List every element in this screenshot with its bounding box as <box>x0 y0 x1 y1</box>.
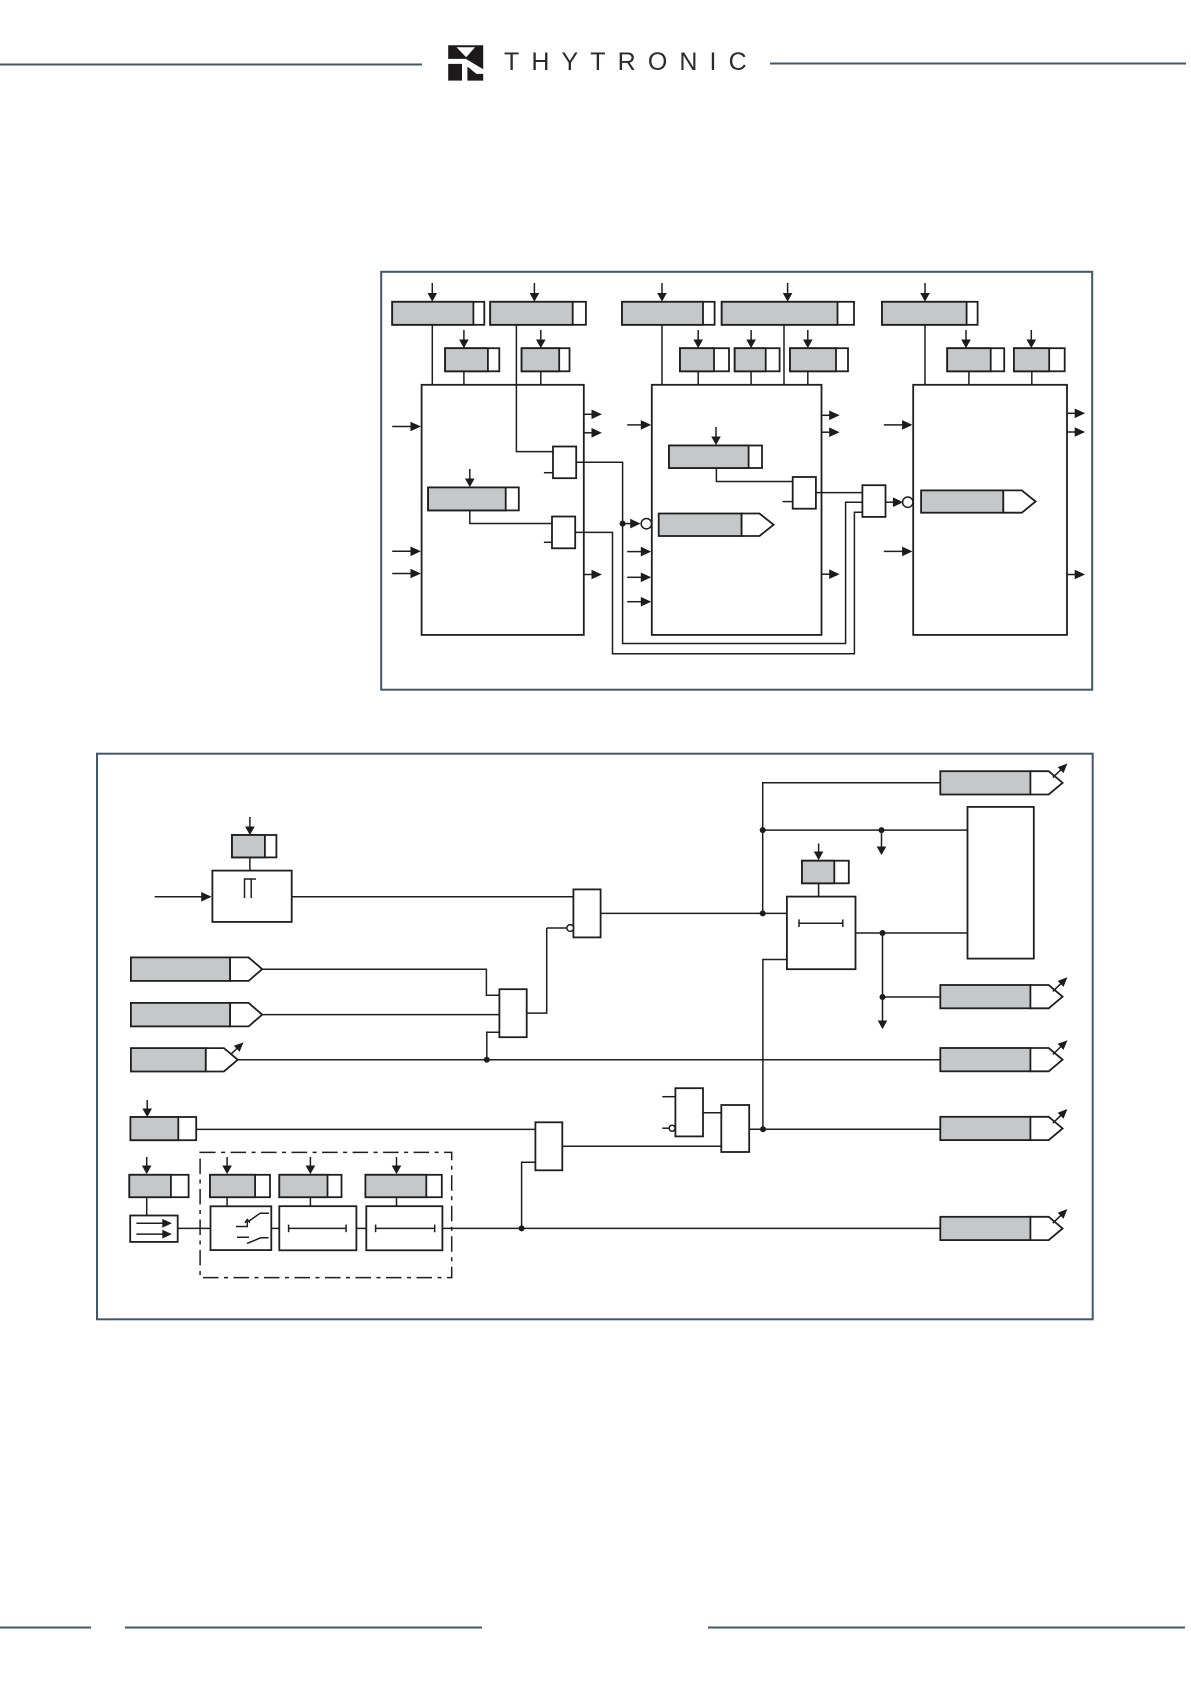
test block 1 (contact) <box>211 1206 272 1250</box>
start signal bar of block 2 <box>659 514 774 537</box>
wire S3 to block 1 <box>463 371 465 385</box>
setting box of timer block <box>802 861 849 884</box>
input arrow 3 into block 2 <box>627 573 651 583</box>
wire S10 to block 3 <box>924 325 926 385</box>
wire gate C to gate D <box>816 492 863 494</box>
setting arrow into T3 <box>392 1157 402 1174</box>
setting arrow into S4 <box>536 330 546 348</box>
wire B3 to signal output O3 <box>237 1059 940 1061</box>
wire timer box to timer block <box>818 883 820 896</box>
input arrow 1 into block 1 <box>392 422 421 432</box>
wire L2 to source selector <box>146 1197 148 1215</box>
gate A (block 1 upper) <box>553 447 576 479</box>
branch arrow at B3 <box>231 1042 244 1054</box>
input arrow 2 into block 2 <box>627 547 651 557</box>
signal bar B1 <box>131 957 262 981</box>
wire test block 2 to test block 3 <box>356 1227 366 1229</box>
bottom diagram outer frame <box>97 754 1093 1320</box>
wire S6 to block 2 <box>783 325 785 385</box>
setting bar S5 (block 2) <box>622 302 715 325</box>
THYTRONIC logo mark <box>448 45 483 80</box>
feedback wire gate B to gate D via lowest bus <box>575 512 862 654</box>
wire gate I to gate H <box>562 1145 721 1147</box>
setting box of input element <box>232 835 276 857</box>
setting arrow into S7 <box>693 330 703 348</box>
setting bar S6 (block 2) <box>722 302 854 325</box>
gate D (combining gate) <box>862 485 885 517</box>
branch arrow at O2 <box>1053 977 1068 991</box>
junction dot at O2 branch <box>880 994 886 1000</box>
setting bar T1 <box>210 1175 270 1197</box>
signal bar B3 with branch arrow <box>131 1048 238 1071</box>
continuation arrow down from function block wire <box>877 830 887 855</box>
wire B1 to gate F <box>262 969 499 995</box>
setting bar S10 (block 3) <box>882 302 978 325</box>
footer rule 1 <box>0 1627 91 1629</box>
signal output O5 <box>940 1217 1062 1240</box>
inverted input arrow into block 3 <box>886 497 914 507</box>
continuation arrow down from O2 branch <box>878 997 888 1029</box>
wire S2 down into block 1 to gate A <box>516 325 553 452</box>
junction dot on test bus <box>519 1225 525 1231</box>
stub input gate A <box>544 472 553 474</box>
input arrow 3 into block 1 <box>392 569 421 579</box>
setting box S9 (block 2) <box>790 348 848 371</box>
timer symbol inside test block 2 <box>289 1225 347 1233</box>
second input into gate I from test bus <box>522 1162 536 1228</box>
block 3 (output logic element) <box>913 385 1067 635</box>
junction dot on timer output <box>880 930 886 936</box>
input element (edge detector) <box>212 871 291 922</box>
wire T1 to test block 1 <box>226 1197 228 1206</box>
setting arrow into L2 <box>142 1157 152 1174</box>
timer block <box>787 897 856 970</box>
setting bar T2 <box>279 1175 341 1197</box>
header rule right <box>770 63 1186 65</box>
function block <box>968 807 1034 959</box>
signal output O2 <box>940 985 1062 1008</box>
setting arrow into S8 <box>746 330 756 348</box>
output arrow 3 of block 1 <box>584 570 602 580</box>
header rule left <box>0 64 422 66</box>
setting arrow into L1 <box>142 1100 152 1117</box>
output arrow 1 of block 3 <box>1067 409 1085 419</box>
wire L1 to gate I <box>196 1128 535 1130</box>
setting arrow into S10 <box>920 283 930 302</box>
output arrow 3 of block 2 <box>822 569 840 579</box>
inverted input arrow into block 2 <box>623 519 652 529</box>
test section dash-dot box <box>200 1152 452 1277</box>
input arrow 2 into block 3 <box>884 547 913 557</box>
junction dot on B3 wire <box>484 1057 490 1063</box>
wire input element to gate E <box>292 896 574 898</box>
branch arrow at O5 <box>1053 1209 1068 1223</box>
signal output O1 (trip) <box>940 771 1062 794</box>
stub input gate C <box>783 501 793 503</box>
output arrow 1 of block 1 <box>584 410 602 420</box>
wire test block 1 to test block 2 <box>271 1227 279 1229</box>
setting arrow into S5 <box>657 283 667 302</box>
setting box S11 (block 3) <box>947 348 1004 371</box>
svg-text:THYTRONIC: THYTRONIC <box>504 48 759 76</box>
setting arrow into timer box <box>814 844 824 861</box>
setting arrow into S3 <box>459 330 469 348</box>
branch arrow at O3 <box>1053 1040 1068 1054</box>
wire T3 to test block 3 <box>396 1197 398 1206</box>
block 1 (first threshold element) <box>422 385 584 635</box>
setting box S7 (block 2) <box>680 348 729 371</box>
branch arrow at O1 <box>1053 764 1068 778</box>
gate B (block 1 lower) <box>552 517 575 549</box>
timer symbol inside block <box>799 919 843 927</box>
junction dot on gate H output <box>760 1126 766 1132</box>
inner setting bar of block 1 <box>428 487 519 510</box>
contact symbol inside test block 1 <box>236 1213 269 1243</box>
output arrow 2 of block 3 <box>1067 427 1085 437</box>
wire setting box to input element <box>249 857 251 870</box>
wire junction up to gate F <box>487 1032 500 1060</box>
junction dot on function block wire <box>879 827 885 833</box>
wire S7 to block 2 <box>697 371 699 385</box>
output arrow 2 of block 1 <box>584 428 602 438</box>
setting arrow into S6 <box>783 283 793 302</box>
selector arrow 2 <box>136 1230 172 1239</box>
wire gate E output to junction <box>601 912 787 914</box>
test block 2 (timer) <box>279 1206 356 1250</box>
wire gate F to gate E inverted input <box>527 928 547 1013</box>
gate F (enable gate) <box>499 989 526 1037</box>
setting arrow into S11 <box>961 330 971 348</box>
wire gate G to gate H <box>703 1112 721 1114</box>
input arrow 1 into block 2 <box>627 420 651 430</box>
wire gate H to signal output O4 <box>749 1128 940 1130</box>
output arrow 3 of block 3 <box>1067 570 1085 580</box>
gate C (block 2) <box>793 477 816 509</box>
wire S12 to block 3 <box>1031 371 1033 385</box>
input arrow 4 into block 2 <box>627 597 651 607</box>
gate E (blocking gate) <box>573 889 600 937</box>
wire inner bar to gate C <box>716 468 792 482</box>
branch arrow at O4 <box>1053 1109 1068 1123</box>
wire inner bar to gate B <box>470 510 552 523</box>
setting arrow into S9 <box>803 330 813 348</box>
wire timer output to function block <box>856 932 968 934</box>
wire S5 to block 2 <box>661 325 663 385</box>
edge symbol inside input element <box>245 879 257 898</box>
source selector block <box>130 1216 178 1242</box>
gate I (supervision gate) <box>535 1122 562 1170</box>
stub input gate G <box>662 1096 675 1098</box>
input arrow 1 into block 3 <box>884 420 913 430</box>
setting arrow into T2 <box>306 1157 316 1174</box>
wire S11 to block 3 <box>968 371 970 385</box>
setting bar S1 (block 1) <box>392 302 484 325</box>
footer rule 2 <box>125 1627 482 1629</box>
top diagram outer frame <box>381 272 1092 690</box>
footer rule 3 <box>708 1627 1185 1629</box>
wire S4 to block 1 <box>540 371 542 385</box>
output arrow 2 of block 2 <box>822 427 840 437</box>
selector arrow 1 <box>136 1219 172 1228</box>
setting arrow into inner bar of block 2 <box>711 427 721 445</box>
wire T2 to test block 2 <box>309 1197 311 1206</box>
block 2 (second threshold element) <box>652 385 822 635</box>
timer symbol inside test block 3 <box>376 1225 435 1233</box>
wire junction down to signal output O2 <box>883 933 941 997</box>
setting bar T3 <box>365 1175 441 1197</box>
setting arrow into S2 <box>530 283 540 302</box>
vertical bus to trip output <box>763 783 941 914</box>
wire junction to function block <box>763 829 968 831</box>
wire S8 to block 2 <box>750 371 752 385</box>
setting box L1 <box>130 1117 196 1140</box>
gate G (inverter) <box>675 1088 703 1136</box>
signal output O4 <box>940 1117 1062 1140</box>
stub input gate B <box>544 541 552 543</box>
setting bar S2 (block 1) <box>490 302 586 325</box>
wire B2 to gate F <box>262 1014 499 1016</box>
wire S1 to block 1 <box>431 325 433 385</box>
setting box L2 <box>129 1175 188 1197</box>
wire S9 to block 2 <box>807 371 809 385</box>
signal output O3 <box>940 1048 1062 1071</box>
second input into timer block <box>763 960 787 1130</box>
setting arrow into S1 <box>428 283 438 302</box>
inverted input of gate E <box>547 925 574 932</box>
inner setting bar of block 2 <box>669 446 762 469</box>
inverted stub input gate G <box>662 1125 675 1131</box>
gate H (output gate) <box>721 1105 749 1152</box>
output arrow 1 of block 2 <box>822 411 840 421</box>
setting box S3 (block 1) <box>445 348 499 371</box>
wire selector to test block 1 <box>178 1227 211 1229</box>
junction dot to function block <box>760 827 766 833</box>
setting arrow into T1 <box>222 1157 232 1174</box>
setting box S8 (block 2) <box>735 348 780 371</box>
setting arrow into input element box <box>245 817 255 835</box>
setting box S12 (block 3) <box>1014 348 1065 371</box>
test block 3 (timer) <box>366 1206 442 1250</box>
signal bar B2 <box>131 1003 262 1027</box>
wire test block 3 to signal output O5 <box>442 1227 940 1229</box>
junction dot on gate A wire <box>620 521 626 527</box>
setting arrow into S12 <box>1027 330 1037 348</box>
setting box S4 (block 1) <box>522 348 570 371</box>
junction dot gate E net <box>760 910 766 916</box>
input arrow 2 into block 1 <box>392 547 421 557</box>
start signal bar of block 3 <box>921 490 1036 512</box>
setting arrow into inner bar of block 1 <box>465 469 475 487</box>
feedback wire gate A to gate D via lower bus <box>576 462 862 643</box>
input arrow into input element <box>155 892 212 902</box>
